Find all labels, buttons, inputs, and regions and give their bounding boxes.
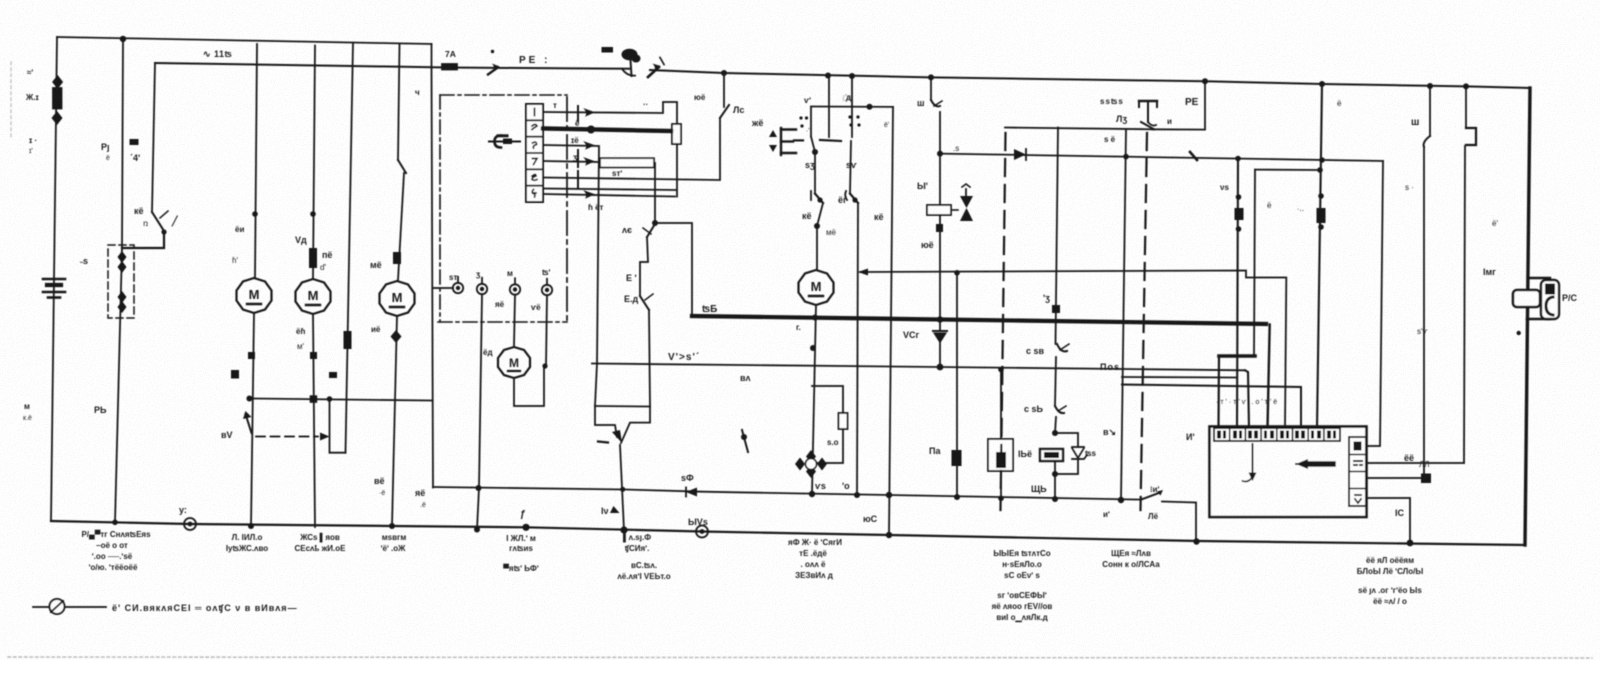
- wire heater branch x347: [346, 43, 354, 453]
- fuse Pa on x957: [952, 450, 962, 466]
- wire door leg x852 upper: [851, 76, 853, 137]
- wire x1055 down: [1055, 357, 1056, 406]
- blob on M3 feeder: [393, 252, 401, 264]
- relay coil YV: [927, 205, 951, 215]
- plug probe symbol: [489, 141, 520, 143]
- wire door top link: [811, 106, 893, 108]
- node bus junction dots: [120, 36, 1469, 90]
- text block wash head: [1102, 549, 1160, 569]
- wire aux line y189: [543, 189, 676, 191]
- wire motor M5 feeder: [817, 203, 823, 270]
- switch blade K2: [850, 194, 858, 203]
- wire right door leg x893 long: [889, 107, 893, 535]
- scan artifact left dotted: [10, 62, 12, 140]
- terminal YV6 on bottom bus: [696, 526, 708, 538]
- motor M2: [296, 279, 331, 314]
- wire pin4 down: [546, 295, 547, 366]
- contact dots: [799, 115, 860, 127]
- wire motor M4 loop: [514, 366, 544, 406]
- connector bracket on x1464: [1466, 128, 1476, 145]
- wire x957 to return bus: [956, 273, 958, 497]
- wire tacho branch: [812, 386, 843, 413]
- resistor RT: [672, 124, 681, 144]
- wire corner L1 drop: [431, 44, 433, 68]
- wire comb w1 from relay box leg: [1254, 170, 1255, 356]
- text block battery charger: [81, 529, 151, 572]
- wire upper return bus: [433, 487, 1141, 500]
- wire return bus after switch: [1162, 502, 1196, 542]
- dash-dot chassis box: [438, 95, 567, 322]
- wire aux line y129 right: [1152, 81, 1205, 129]
- switch C1L blade: [1055, 406, 1064, 413]
- text block heater: [788, 538, 842, 580]
- tacho star wheel B1: [795, 450, 827, 478]
- wire motor M5 down: [812, 305, 816, 494]
- wire right leg x1424 from top bus: [1429, 86, 1431, 136]
- wire branch y384: [1122, 385, 1301, 429]
- wire cell4 to 24 line corner: [655, 223, 692, 316]
- wire switch leg x152: [152, 63, 155, 212]
- wire door leg x829: [828, 76, 830, 138]
- wire main top bus right part: [650, 70, 1530, 88]
- wire arrow link y272: [860, 271, 1286, 429]
- wire main top bus: [155, 63, 629, 69]
- motor M3: [380, 281, 415, 316]
- resistor 1W on cell4 line: [600, 158, 654, 167]
- diode VC8: [933, 330, 947, 332]
- pressure switch BR chamber: [595, 405, 650, 408]
- switch blade K1: [815, 194, 823, 203]
- wire aux line y129: [1005, 128, 1154, 130]
- switch S0 blade on bus: [488, 67, 498, 74]
- connector mating ticks: [577, 106, 579, 121]
- valve symbol YV: [960, 196, 973, 208]
- wire pin2 leg to main bus: [477, 295, 482, 530]
- wire x940 relay down: [939, 215, 941, 331]
- timer side cell column: [1349, 437, 1366, 506]
- terminal Y on bottom bus: [184, 518, 196, 530]
- switch blade 3b: [1424, 136, 1430, 147]
- motor M1: [237, 278, 272, 313]
- text block drier: [226, 533, 268, 553]
- switch K4 blade: [152, 212, 164, 231]
- text block water status: [992, 549, 1053, 623]
- switch blade x940: [931, 100, 940, 106]
- wire x1126 drop to return bus: [1121, 129, 1126, 500]
- diamond node D1 on left border: [52, 75, 63, 89]
- wire motor M2 feeder: [313, 46, 315, 279]
- wire motor rung y399: [249, 399, 431, 401]
- wire timer cell1 to bus2 riser: [1366, 161, 1383, 446]
- wire motor M1 to bus: [251, 313, 254, 526]
- switch A2: [647, 224, 655, 237]
- diode VD2 on bus2: [1014, 149, 1026, 160]
- wire main bottom bus: [51, 521, 1525, 545]
- fuse F1 on bus: [442, 64, 457, 70]
- switch S1 on bus: [602, 47, 614, 53]
- wire pressure line V>1: [592, 364, 1245, 371]
- text block ice press: [294, 532, 346, 553]
- door switch bracket SB: [781, 128, 796, 155]
- fuse blob on x1239: [1235, 208, 1244, 220]
- wire cell5 line to door switch leg: [543, 118, 720, 180]
- pressostat T symbol: [1139, 100, 1157, 102]
- text block wash pump: [503, 534, 539, 573]
- wire VC8 to pressure line: [939, 343, 941, 367]
- text block timer: [1357, 556, 1424, 606]
- wire bus2 supply: [940, 154, 1383, 161]
- fuse R2 on x347: [344, 331, 352, 349]
- diamond contacts in dashed box: [118, 251, 127, 313]
- wire E2 down across V>1: [649, 310, 650, 407]
- wire timer cell4 to bottom bus: [1366, 498, 1410, 543]
- wire cell4 line: [543, 161, 655, 223]
- wire riser x431 full: [432, 68, 434, 488]
- motor M5: [799, 270, 834, 305]
- dashed box battery sensor: [108, 245, 134, 318]
- switch on M3 feeder: [398, 160, 406, 173]
- wire 24line elbow to strip: [1268, 325, 1270, 429]
- switch LS2 blade: [1141, 122, 1154, 129]
- wire motor M2 to bus: [313, 314, 315, 527]
- wire V>1 corner to chamber: [595, 364, 597, 407]
- relay coil 1B1: [1040, 449, 1063, 461]
- wire left border: [51, 37, 57, 521]
- wire heater relay leg x1057: [1056, 128, 1059, 345]
- terminal strip on timer: [1214, 428, 1340, 441]
- switch BV blade on M1 wire: [246, 414, 252, 433]
- timer internal arrow down: [1252, 444, 1254, 477]
- pin circles row: [453, 283, 552, 295]
- node bottom bus junctions: [522, 524, 529, 531]
- fuse FB on left border: [53, 88, 62, 109]
- wire timer cell3 line: [1366, 477, 1424, 479]
- small box top link y170: [1255, 169, 1320, 171]
- scan artifact bottom dotted: [8, 657, 1592, 658]
- plug P/C: [1528, 277, 1550, 279]
- dashed boundary line 2: [1141, 133, 1148, 510]
- wire 24 line thick: [692, 316, 1266, 324]
- wire cell1 line: [543, 102, 677, 124]
- wire cell6 line: [543, 194, 675, 197]
- wire x1238 drop: [1237, 159, 1238, 429]
- diode V1F on return bus: [686, 488, 697, 497]
- battery GB: [43, 279, 65, 298]
- switch C1B blade: [1057, 344, 1067, 351]
- wire tacho branch return: [814, 429, 843, 463]
- pin stubs: [457, 277, 459, 283]
- wire motor M3 feeder: [398, 44, 400, 160]
- wire relay to return bus: [1054, 461, 1056, 499]
- terminal strip glyphs: [1217, 431, 1336, 439]
- dashed boundary line 1: [1001, 133, 1006, 510]
- wire vertical V-charger x123: [115, 39, 123, 523]
- wire right border: [1525, 88, 1530, 545]
- wire motor M1 feeder: [255, 44, 257, 278]
- text block balance: [617, 532, 670, 581]
- wire step link: [330, 399, 346, 453]
- wire resistor down to cell6 line: [676, 144, 678, 197]
- flow sensor box: [1000, 369, 1002, 439]
- wire right contact leg x850: [850, 141, 851, 194]
- wire switch to dashed box: [122, 232, 164, 248]
- fuse R1 on M2 feeder: [309, 248, 317, 268]
- wire pin1 to riser x431: [433, 287, 453, 289]
- node bus2 junctions: [1123, 154, 1129, 160]
- wire x857 leg down: [857, 203, 858, 495]
- wire branch y377: [1122, 376, 1237, 379]
- fuse blob on x1321: [1317, 208, 1326, 223]
- wire top feeder bus L1: [57, 37, 432, 44]
- diamond node D2 on left border: [52, 111, 63, 125]
- switch LC blade: [720, 105, 729, 118]
- wire motor M3 to bus: [392, 316, 397, 526]
- wire left contact leg x815: [811, 137, 815, 153]
- wire timer cell2 line: [1366, 462, 1464, 464]
- wire BR to bottom buses: [620, 445, 624, 530]
- switch E2: [640, 296, 649, 310]
- legend circuit breaker symbol: [33, 606, 106, 608]
- motor M4: [498, 347, 530, 378]
- connector XP1 cell column: [526, 104, 543, 202]
- switch on return bus: [1141, 493, 1160, 500]
- text block fan: [381, 533, 407, 553]
- wire Mol elbow to strip: [1245, 370, 1249, 428]
- wire pin3 to motor M4: [514, 295, 515, 346]
- wire right leg x1464 from top bus: [1465, 86, 1467, 127]
- label m 4': [130, 139, 139, 145]
- resistor R13: [839, 413, 848, 429]
- switch stub near BA: [742, 430, 748, 452]
- mechanical dashed link BV: [256, 436, 318, 438]
- wire x1322 drop: [1317, 84, 1322, 428]
- wire cell2 thick: [543, 129, 671, 132]
- connector XP1 pin glyphs: [532, 109, 537, 198]
- zener branch VD3: [1055, 433, 1078, 447]
- timer unit A1 outer box: [1210, 427, 1367, 518]
- node cell4 junction: [652, 220, 658, 226]
- timer internal thick arrow: [1306, 461, 1333, 467]
- wire cell3 line: [543, 145, 599, 364]
- wire main switch leg x940: [930, 77, 932, 100]
- wire door leg x811: [810, 107, 812, 137]
- mechanical dashes door coupling: [794, 139, 803, 141]
